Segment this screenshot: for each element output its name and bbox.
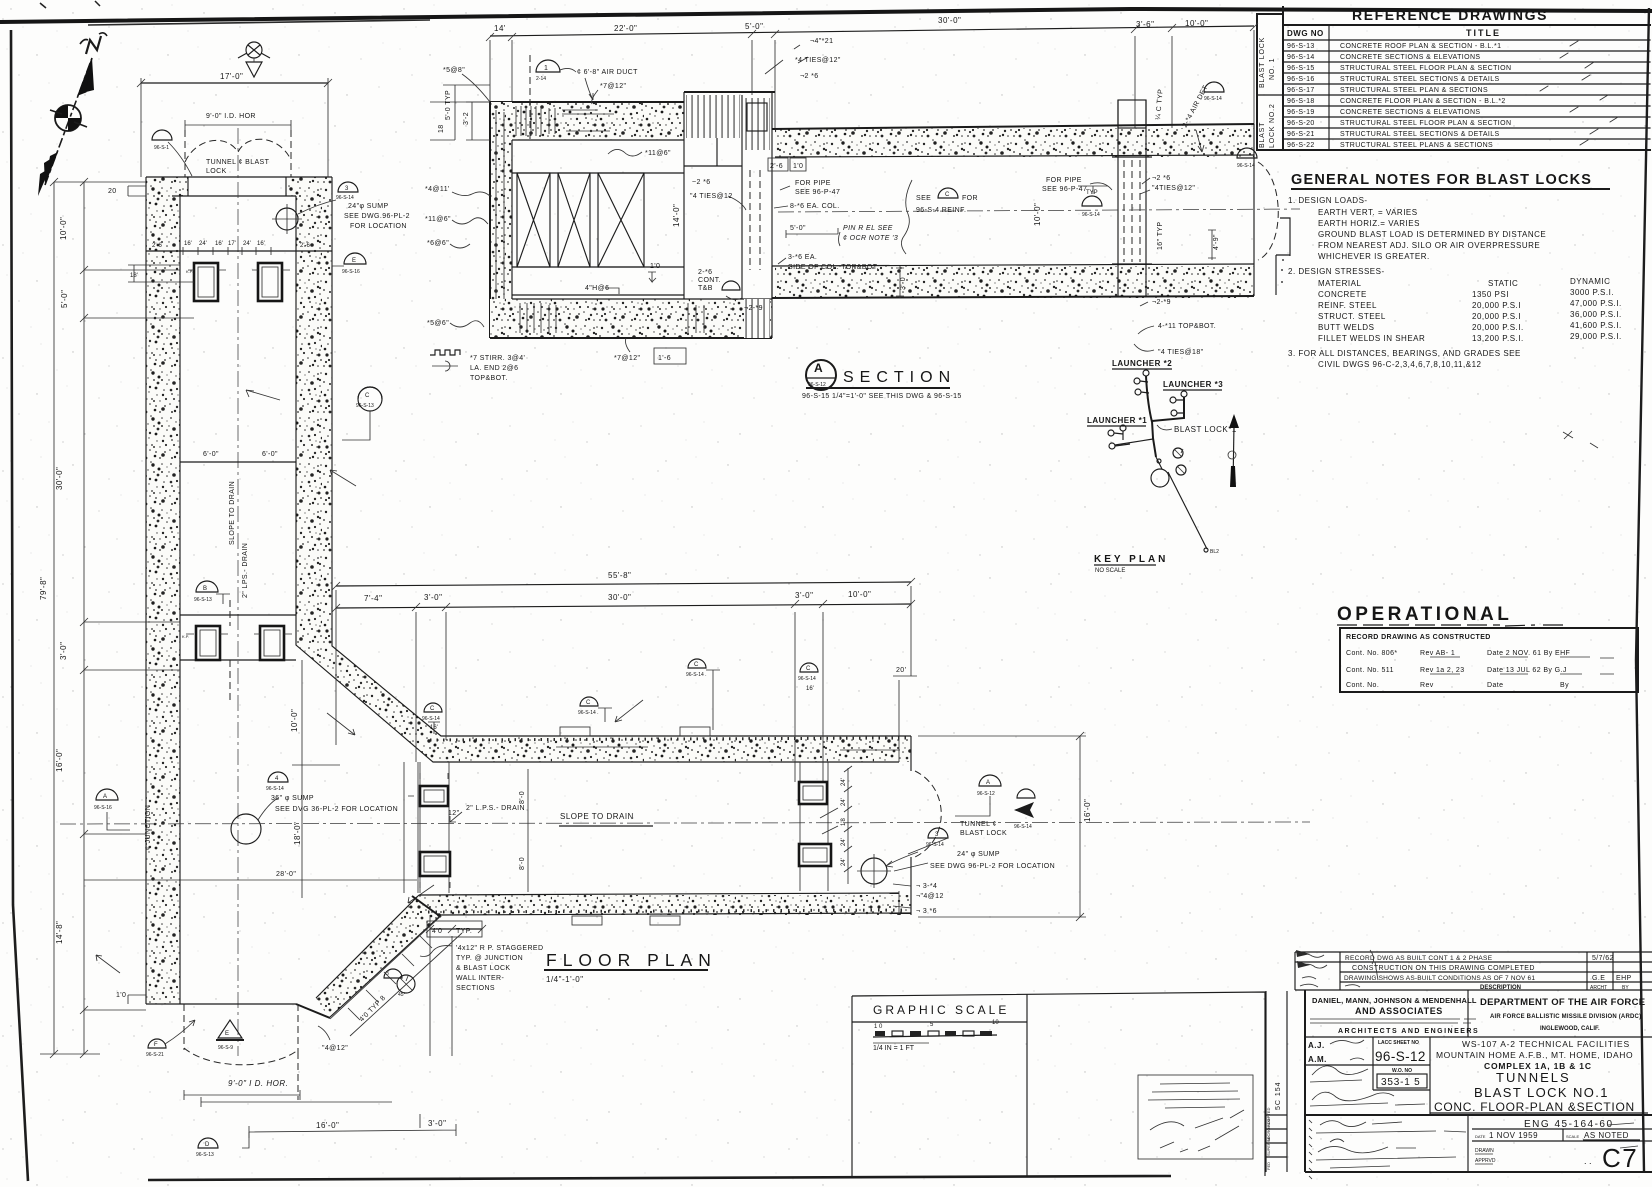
svg-text:SUPERSD: SUPERSD <box>1266 1137 1271 1156</box>
svg-text:16" TYP: 16" TYP <box>1157 221 1164 250</box>
extension verticals <box>336 586 911 782</box>
dome symbol in tunnel <box>1078 186 1108 194</box>
svg-text:GRAPHIC SCALE: GRAPHIC SCALE <box>873 1003 1009 1017</box>
svg-text:96-S-13: 96-S-13 <box>196 1152 214 1158</box>
svg-text:3'-0": 3'-0" <box>424 593 442 602</box>
numbers band <box>1305 1037 1430 1115</box>
svg-text:DRAWN: DRAWN <box>1475 1148 1494 1154</box>
revision table grid <box>1295 952 1652 990</box>
svg-text:NO. 1: NO. 1 <box>1269 58 1276 80</box>
svg-text:STATIC: STATIC <box>1488 279 1518 288</box>
svg-text:PIN R EL SEE: PIN R EL SEE <box>843 225 893 232</box>
silo circles <box>1173 448 1183 458</box>
svg-text:6'-0": 6'-0" <box>262 451 278 458</box>
svg-text:96-S-15: 96-S-15 <box>1287 65 1315 72</box>
C domes above top wall <box>424 703 442 712</box>
svg-text:FOR PIPE: FOR PIPE <box>1046 177 1082 184</box>
svg-text:1/4 IN = 1 FT: 1/4 IN = 1 FT <box>873 1045 915 1052</box>
svg-text:9'-0" I.D. HOR: 9'-0" I.D. HOR <box>206 113 256 120</box>
svg-text:"4 TIES@18": "4 TIES@18" <box>1158 349 1204 356</box>
svg-text:FOR LOCATION: FOR LOCATION <box>350 223 407 230</box>
svg-text:A.J.: A.J. <box>1308 1041 1325 1050</box>
svg-text:96-S-16: 96-S-16 <box>342 269 360 275</box>
svg-text:¬2 *6: ¬2 *6 <box>1152 175 1171 182</box>
svg-text:BLAST: BLAST <box>1259 122 1266 148</box>
tunnel roof slab <box>775 128 1254 157</box>
svg-text:8'-0: 8'-0 <box>519 857 526 870</box>
key plan trunk upper <box>1146 376 1152 422</box>
svg-text:2-14: 2-14 <box>536 76 546 82</box>
vertical centerline <box>237 128 239 1056</box>
svg-text:. .: . . <box>1584 1156 1592 1166</box>
key plan north arrow <box>1233 424 1234 487</box>
top wall joint line <box>556 747 900 750</box>
junction sump label <box>258 798 278 820</box>
svg-text:24"φ SUMP: 24"φ SUMP <box>348 203 389 210</box>
svg-text:Date 13 JUL 62 By G.J: Date 13 JUL 62 By G.J <box>1487 667 1567 674</box>
svg-text:96-S-12: 96-S-12 <box>977 791 995 797</box>
air duct centerline <box>529 55 531 140</box>
svg-text:4'-9": 4'-9" <box>1213 234 1220 250</box>
left wall stipple <box>146 177 188 196</box>
svg-text:10'-0": 10'-0" <box>1185 19 1208 28</box>
signatures band <box>1305 1114 1652 1116</box>
top border echo segment <box>88 20 430 25</box>
GRAPHIC SCALE <box>852 992 1265 1176</box>
svg-text:OPERATIONAL: OPERATIONAL <box>1337 604 1512 625</box>
svg-text:¢ JUNCTION: ¢ JUNCTION <box>145 805 152 850</box>
svg-text:36,000 P.S.I.: 36,000 P.S.I. <box>1570 310 1622 319</box>
svg-text:353-1 5: 353-1 5 <box>1381 1077 1421 1088</box>
svg-text:C: C <box>806 666 811 672</box>
left border line <box>11 30 28 1181</box>
20 tick right end <box>893 676 917 736</box>
svg-text:17': 17' <box>228 241 236 247</box>
svg-text:30'-0": 30'-0" <box>608 593 631 602</box>
E triangle symbol <box>218 1020 242 1038</box>
svg-text:Cont. No.: Cont. No. <box>1346 682 1379 689</box>
svg-text:DATE: DATE <box>1475 1134 1486 1139</box>
air duct dome symbol <box>536 60 560 72</box>
launcher 2 pad <box>1143 370 1149 376</box>
svg-text:5'-0": 5'-0" <box>745 22 763 31</box>
svg-text:AIR FORCE BALLISTIC MISSILE DI: AIR FORCE BALLISTIC MISSILE DIVISION (AR… <box>1490 1014 1641 1020</box>
right sump label <box>886 852 918 867</box>
28'-0 dim <box>84 879 417 881</box>
tunnel centerline <box>778 209 1300 212</box>
svg-text:~2 *6: ~2 *6 <box>692 179 711 186</box>
svg-text:FOR: FOR <box>962 195 978 202</box>
C dome mid <box>358 387 382 411</box>
upper column boxes <box>186 263 226 301</box>
svg-text:LACC SHEET NO: LACC SHEET NO <box>1378 1040 1419 1046</box>
svg-text:3000 P.S.I.: 3000 P.S.I. <box>1570 288 1614 297</box>
svg-text:79'-8": 79'-8" <box>39 577 48 600</box>
svg-text:96-S-9: 96-S-9 <box>218 1045 233 1051</box>
svg-text:55'-8": 55'-8" <box>608 571 631 580</box>
svg-text:5'-0": 5'-0" <box>790 225 806 232</box>
svg-text:¢ 6'-8" AIR DUCT: ¢ 6'-8" AIR DUCT <box>577 69 638 76</box>
svg-text:96-S-15 1/4"=1'-0" SEE THI: 96-S-15 1/4"=1'-0" SEE THIS DWG & 96-S-1… <box>802 393 962 400</box>
svg-text:CONC. FLOOR-PLAN &SECTION: CONC. FLOOR-PLAN &SECTION <box>1434 1100 1635 1114</box>
svg-text:C: C <box>945 192 950 198</box>
svg-text:TOP&BOT.: TOP&BOT. <box>470 375 508 382</box>
svg-text:10'-0": 10'-0" <box>1033 203 1042 226</box>
svg-text:SIDE OF COL. TOP&BOT.: SIDE OF COL. TOP&BOT. <box>788 264 879 271</box>
dashed drain line <box>229 600 231 700</box>
svg-text:3'-0": 3'-0" <box>428 1119 446 1128</box>
svg-text:96-S-21: 96-S-21 <box>146 1052 164 1058</box>
svg-text:Date 2 NOV. 61 By EHF: Date 2 NOV. 61 By EHF <box>1487 650 1570 657</box>
svg-text:AND ASSOCIATES: AND ASSOCIATES <box>1355 1006 1443 1016</box>
svg-text:DWG NO: DWG NO <box>1287 29 1324 38</box>
upper chamfer joint lines <box>404 762 418 893</box>
right column strip <box>800 762 828 891</box>
svg-text:5/7/62: 5/7/62 <box>1592 955 1614 962</box>
4'-0 TYP dim <box>430 915 452 1056</box>
svg-text:5'-0": 5'-0" <box>60 290 69 308</box>
svg-text:EHP: EHP <box>1616 975 1632 982</box>
svg-text:96-S-14: 96-S-14 <box>1204 96 1222 102</box>
top chamber sump <box>276 208 298 230</box>
svg-text:LA. END 2@6: LA. END 2@6 <box>470 365 518 372</box>
svg-text:1 0: 1 0 <box>874 1024 883 1030</box>
svg-text:36" φ SUMP: 36" φ SUMP <box>271 795 314 802</box>
svg-text:CONCRETE: CONCRETE <box>1318 290 1367 299</box>
svg-text:29,000 P.S.I.: 29,000 P.S.I. <box>1570 332 1622 341</box>
svg-text:18'-0": 18'-0" <box>293 822 302 845</box>
svg-text:LAUNCHER *1: LAUNCHER *1 <box>1087 416 1147 425</box>
svg-text:SEE 96-P-47: SEE 96-P-47 <box>795 189 840 196</box>
svg-text:STRUCTURAL STEEL FLOOR PLAN &: STRUCTURAL STEEL FLOOR PLAN & SECTION <box>1340 120 1511 127</box>
svg-text:7'-4": 7'-4" <box>364 594 382 603</box>
GENERAL NOTES <box>1276 172 1622 369</box>
svg-text:18: 18 <box>438 124 445 133</box>
svg-text:16': 16' <box>215 241 223 247</box>
left dimension stack <box>54 182 84 1054</box>
svg-text:SEE DWG 96-PL-2 FOR LOCATION: SEE DWG 96-PL-2 FOR LOCATION <box>930 863 1055 870</box>
right wall stipple upper <box>286 177 332 196</box>
svg-text:BY: BY <box>1622 985 1629 991</box>
svg-text:SECTIONS: SECTIONS <box>456 985 495 992</box>
X-braced column 3 <box>598 173 644 267</box>
chamber interior lines <box>512 173 684 267</box>
svg-text:STRUCTURAL STEEL PLAN & SECTIO: STRUCTURAL STEEL PLAN & SECTIONS <box>1340 87 1488 94</box>
svg-text:SECTION: SECTION <box>843 369 956 386</box>
north arrowhead <box>78 58 92 95</box>
svg-text:2'-6: 2'-6 <box>300 243 310 249</box>
south fletch <box>45 152 58 185</box>
svg-text:FED: FED <box>1266 1162 1271 1170</box>
svg-text:CIVIL DWGS 96-C-2,3,4,6,7,8,1: CIVIL DWGS 96-C-2,3,4,6,7,8,10,11,&12 <box>1318 360 1482 369</box>
svg-text:17'-0": 17'-0" <box>220 72 243 81</box>
svg-text:10'-0": 10'-0" <box>59 217 68 240</box>
tunnel floor slab <box>775 266 1254 298</box>
right end sump <box>861 858 887 884</box>
svg-text:F: F <box>154 1042 158 1048</box>
svg-text:ARCHT: ARCHT <box>1590 985 1607 991</box>
svg-text:9'-0" I D. HOR.: 9'-0" I D. HOR. <box>228 1079 288 1088</box>
svg-text:4-*11 TOP&BOT.: 4-*11 TOP&BOT. <box>1158 323 1216 330</box>
svg-text:96-S-13: 96-S-13 <box>356 403 374 409</box>
svg-text:BUTT WELDS: BUTT WELDS <box>1318 323 1374 332</box>
section top dimension line <box>490 26 1254 36</box>
svg-text:CONCRETE ROOF PLAN & SECTION: CONCRETE ROOF PLAN & SECTION - B.L.*1 <box>1340 43 1501 50</box>
svg-text:96-S-13: 96-S-13 <box>194 597 212 603</box>
svg-text:BL2: BL2 <box>1210 549 1219 555</box>
svg-text:¬2-*9: ¬2-*9 <box>1152 299 1171 306</box>
chamber left wall <box>490 102 512 338</box>
svg-text:DRAWING SHOWS AS-BUILT CONDITI: DRAWING SHOWS AS-BUILT CONDITIONS AS OF … <box>1344 975 1535 982</box>
top wall pads <box>560 727 590 736</box>
right end of tunnel <box>910 736 912 915</box>
tunnel line to BL2 <box>1168 472 1207 549</box>
rebar ticks along walls <box>430 738 908 740</box>
svg-text:A: A <box>103 794 107 800</box>
svg-text:SEE: SEE <box>916 195 931 202</box>
svg-text:16': 16' <box>806 686 814 692</box>
svg-text:C: C <box>586 700 591 706</box>
svg-text:SLOPE TO DRAIN: SLOPE TO DRAIN <box>229 481 236 545</box>
table grid <box>1282 7 1284 150</box>
svg-text:FOR PIPE: FOR PIPE <box>795 180 831 187</box>
svg-text:STRUCTURAL STEEL SECTIONS & DE: STRUCTURAL STEEL SECTIONS & DETAILS <box>1340 76 1500 83</box>
svg-text:30'-0": 30'-0" <box>938 16 961 25</box>
svg-text:96-S-14: 96-S-14 <box>1287 54 1315 61</box>
svg-text:K.P.: K.P. <box>182 634 189 639</box>
svg-text:1. DESIGN LOADS-: 1. DESIGN LOADS- <box>1288 196 1368 205</box>
svg-text:96-S-14 .: 96-S-14 . <box>578 710 599 716</box>
svg-text:96-S-21: 96-S-21 <box>1287 131 1315 138</box>
tunnel right end <box>1253 124 1255 296</box>
dome right mid <box>1237 148 1257 158</box>
svg-text:96-S-20: 96-S-20 <box>1287 120 1315 127</box>
svg-text:TYP.: TYP. <box>456 928 472 935</box>
svg-text:TITLE: TITLE <box>1466 28 1501 38</box>
svg-text:LOCK NO.2: LOCK NO.2 <box>1269 103 1276 148</box>
leaders bottom right <box>894 838 948 871</box>
E dome symbol right <box>344 253 366 264</box>
extension lines from dims <box>490 30 1254 128</box>
svg-text:1'0: 1'0 <box>650 263 660 270</box>
svg-text:GENERAL NOTES FOR BLAST LOCKS: GENERAL NOTES FOR BLAST LOCKS <box>1291 172 1592 188</box>
svg-text:DEPARTMENT OF THE AIR FORCE: DEPARTMENT OF THE AIR FORCE <box>1480 997 1645 1008</box>
svg-text:¬"4@12: ¬"4@12 <box>916 893 944 900</box>
svg-text:1: 1 <box>544 65 548 72</box>
svg-text:96-S-4 REINF.: 96-S-4 REINF. <box>916 207 966 214</box>
svg-text:TYP: TYP <box>1086 190 1098 196</box>
svg-text:"4@12": "4@12" <box>322 1045 348 1052</box>
svg-text:8-*6 EA. COL.: 8-*6 EA. COL. <box>790 203 840 210</box>
svg-text:5C 154: 5C 154 <box>1275 1081 1282 1110</box>
svg-text:INGLEWOOD, CALIF.: INGLEWOOD, CALIF. <box>1540 1026 1600 1032</box>
svg-text:B: B <box>203 586 207 592</box>
svg-text:By: By <box>1560 682 1569 689</box>
svg-text:FILLET WELDS IN SHEAR: FILLET WELDS IN SHEAR <box>1318 334 1425 343</box>
dim row at columns <box>146 250 332 252</box>
svg-text:MATERIAL: MATERIAL <box>1318 279 1361 288</box>
svg-text:3'-0: 3'-0 <box>900 277 907 290</box>
svg-text:A.M.: A.M. <box>1308 1055 1327 1064</box>
sidebar strip <box>1266 991 1287 1172</box>
svg-text:FLOOR PLAN: FLOOR PLAN <box>546 950 717 970</box>
OPERATIONAL BLOCK <box>1337 604 1638 692</box>
svg-text:WHICHEVER IS GREATER.: WHICHEVER IS GREATER. <box>1318 252 1430 261</box>
tunnel end dashed arc <box>1258 162 1278 260</box>
svg-text:16'-0": 16'-0" <box>316 1121 339 1130</box>
svg-text:14': 14' <box>494 24 506 33</box>
svg-text:¬ 3-*4: ¬ 3-*4 <box>916 883 937 890</box>
svg-text:C: C <box>365 393 370 399</box>
title block outer <box>1305 990 1652 1172</box>
A dome symbol left <box>96 789 118 800</box>
REFERENCE DRAWINGS TABLE <box>1257 7 1650 150</box>
svg-text:3: 3 <box>386 971 389 977</box>
svg-text:1'0: 1'0 <box>116 992 126 999</box>
24 dim string right columns <box>847 768 849 884</box>
svg-text:96-S-18: 96-S-18 <box>1287 98 1315 105</box>
svg-text:CONCRETE SECTIONS & ELEVATION: CONCRETE SECTIONS & ELEVATIONS <box>1340 54 1481 61</box>
svg-text:20: 20 <box>108 188 117 195</box>
svg-text:96-S-14: 96-S-14 <box>1082 212 1100 218</box>
roof slab bar hatch <box>516 106 555 136</box>
svg-text:14'-0": 14'-0" <box>672 204 681 227</box>
svg-text:96-S-14: 96-S-14 <box>336 195 354 201</box>
svg-text:GROUND BLAST LOAD IS DETERMINE: GROUND BLAST LOAD IS DETERMINED BY DISTA… <box>1318 230 1546 239</box>
svg-text:STRUCT. STEEL: STRUCT. STEEL <box>1318 312 1386 321</box>
junction sump <box>231 814 261 844</box>
svg-text:C: C <box>694 662 699 668</box>
X-braced column 1 <box>517 173 550 267</box>
svg-text:5'-0 TYP: 5'-0 TYP <box>445 90 452 120</box>
door end-wall block <box>684 91 775 93</box>
svg-text:24': 24' <box>199 241 207 247</box>
RP pad strip along chamfer <box>330 916 462 1036</box>
svg-text:C7: C7 <box>1602 1143 1638 1173</box>
svg-text:RECORD DRAWING AS CONSTRUCTED: RECORD DRAWING AS CONSTRUCTED <box>1346 634 1491 641</box>
svg-text:K.P.: K.P. <box>186 269 193 274</box>
svg-text:WS-107 A-2 TECHNICAL FACILIT: WS-107 A-2 TECHNICAL FACILITIES <box>1462 1039 1630 1049</box>
svg-text:*4@11': *4@11' <box>425 186 450 193</box>
svg-text:AS NOTED: AS NOTED <box>1584 1131 1629 1140</box>
svg-text:1'-6: 1'-6 <box>658 355 671 362</box>
bottom border line <box>148 1176 1171 1180</box>
svg-text:24': 24' <box>243 241 251 247</box>
svg-text:A: A <box>814 361 824 375</box>
svg-text:96-S-14: 96-S-14 <box>422 716 440 722</box>
svg-text:MOUNTAIN HOME A.F.B., MT.: MOUNTAIN HOME A.F.B., MT. HOME, IDAHO <box>1436 1050 1633 1060</box>
svg-text:C: C <box>430 706 435 712</box>
company cell <box>1305 990 1652 1037</box>
interior line 6-0 <box>180 461 296 463</box>
svg-text:16'-0": 16'-0" <box>55 749 64 772</box>
svg-text:FROM NEAREST ADJ. SILO OR AIR: FROM NEAREST ADJ. SILO OR AIR OVERPRESSU… <box>1318 241 1540 250</box>
svg-text:SCALE: SCALE <box>1566 1134 1579 1139</box>
dome symbol 1 <box>152 130 172 140</box>
17'-0 dimension <box>141 82 328 84</box>
left column strip <box>420 762 449 893</box>
svg-text:1 NOV 1959: 1 NOV 1959 <box>1489 1131 1538 1140</box>
svg-text:*5@8": *5@8" <box>443 67 465 74</box>
svg-text:CONT.: CONT. <box>698 277 721 284</box>
small vertical dim left of chamber roof <box>466 102 490 140</box>
svg-text:G.E: G.E <box>1592 975 1605 982</box>
svg-text:96-S-14: 96-S-14 <box>1237 163 1255 169</box>
svg-text:RECORD DWG AS BUILT CONT 1: RECORD DWG AS BUILT CONT 1 & 2 PHASE <box>1345 955 1493 962</box>
sump leader + text <box>298 200 336 214</box>
F dome bottom left <box>148 1039 166 1048</box>
svg-text:13,200 P.S.I.: 13,200 P.S.I. <box>1472 334 1524 343</box>
svg-text:96-S-1: 96-S-1 <box>154 145 169 151</box>
svg-text:*11@6": *11@6" <box>645 150 671 157</box>
svg-text:*11@6": *11@6" <box>425 216 451 223</box>
svg-text:REINF. STEEL: REINF. STEEL <box>1318 301 1377 310</box>
svg-text:3'-0": 3'-0" <box>795 591 813 600</box>
svg-text:STRUCTURAL STEEL FLOOR PLAN &: STRUCTURAL STEEL FLOOR PLAN & SECTION <box>1340 65 1511 72</box>
svg-text:96-S-13: 96-S-13 <box>1287 43 1315 50</box>
svg-text:4"H@6: 4"H@6 <box>585 285 609 292</box>
revision date scribbles <box>1298 950 1378 987</box>
svg-text:96-S-22: 96-S-22 <box>1287 142 1315 149</box>
svg-text:24': 24' <box>841 858 847 866</box>
svg-text:24': 24' <box>841 778 847 786</box>
graphic scale outer box <box>852 992 1265 1176</box>
svg-text:¬ 3 *6: ¬ 3 *6 <box>916 908 937 915</box>
svg-text:24': 24' <box>841 838 847 846</box>
svg-text:96-S-16: 96-S-16 <box>1287 76 1315 83</box>
chamber roof slab <box>490 102 684 140</box>
svg-text:20,000 P.S.I: 20,000 P.S.I <box>1472 312 1521 321</box>
svg-text:SEE DVG 36-PL-2 FOR LOCATION: SEE DVG 36-PL-2 FOR LOCATION <box>275 806 398 813</box>
chamber floor slab <box>490 299 772 338</box>
svg-text:NO SCALE: NO SCALE <box>1095 568 1125 574</box>
SECTION DRAWING <box>425 16 1300 400</box>
svg-text:24" φ SUMP: 24" φ SUMP <box>957 851 1000 858</box>
NORTH COMPASS <box>38 33 107 196</box>
svg-text:10'-0": 10'-0" <box>848 590 871 599</box>
corner tick top-left <box>40 1 100 8</box>
svg-text:D: D <box>205 1142 210 1148</box>
signature scribbles left <box>1310 1066 1425 1106</box>
svg-text:ENG 45-164-60: ENG 45-164-60 <box>1524 1119 1614 1130</box>
svg-text:DANIEL, MANN, JOHNSON & MENDEN: DANIEL, MANN, JOHNSON & MENDENHALL <box>1312 996 1477 1005</box>
stirrup glyph <box>430 350 460 355</box>
launcher 3 pad <box>1181 391 1187 397</box>
svg-text:CONCRETE FLOOR PLAN & SECTION: CONCRETE FLOOR PLAN & SECTION - B.L.*2 <box>1340 98 1506 105</box>
svg-text:16'-0": 16'-0" <box>1083 799 1092 822</box>
C dome pair on chamfer <box>384 969 402 978</box>
compass hub circle <box>55 105 81 131</box>
svg-text:3-*6 EA.: 3-*6 EA. <box>788 254 817 261</box>
svg-text:DESCRIPTION: DESCRIPTION <box>1480 985 1521 991</box>
D dome bottom <box>198 1138 218 1148</box>
stray marks <box>1563 431 1598 448</box>
svg-text:E: E <box>225 1031 229 1037</box>
svg-text:1'0: 1'0 <box>793 163 803 170</box>
svg-text:96-S-14: 96-S-14 <box>1014 824 1032 830</box>
bottom dashed opening <box>184 1048 298 1065</box>
top border line <box>0 9 1652 22</box>
svg-text:DYNAMIC: DYNAMIC <box>1570 277 1610 286</box>
svg-text:WALL INTER-: WALL INTER- <box>456 975 504 982</box>
horizontal centerline <box>60 822 1310 824</box>
TITLE BLOCK <box>1266 950 1652 1179</box>
svg-text:EARTH HORIZ.= VARIES: EARTH HORIZ.= VARIES <box>1318 219 1420 228</box>
svg-text:4'0: 4'0 <box>432 928 442 935</box>
margin bracket glyph <box>1280 218 1290 282</box>
svg-text:'4x12" R P. STAGGERED: '4x12" R P. STAGGERED <box>456 945 543 952</box>
svg-text:EARTH VERT. = VARIES: EARTH VERT. = VARIES <box>1318 208 1418 217</box>
